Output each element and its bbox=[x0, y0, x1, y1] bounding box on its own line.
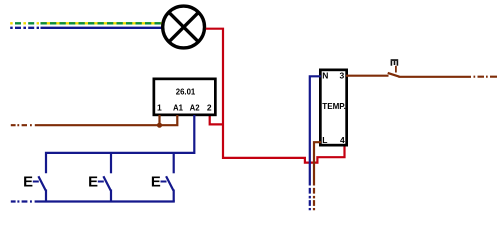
svg-text:3: 3 bbox=[340, 71, 345, 81]
svg-text:4: 4 bbox=[340, 135, 345, 145]
svg-text:2: 2 bbox=[207, 103, 212, 113]
svg-text:E: E bbox=[151, 175, 161, 191]
svg-text:N: N bbox=[322, 71, 328, 81]
svg-text:L: L bbox=[322, 135, 327, 145]
svg-text:1: 1 bbox=[157, 103, 162, 113]
svg-text:E: E bbox=[23, 175, 33, 191]
svg-text:E: E bbox=[88, 175, 98, 191]
svg-text:TEMP.: TEMP. bbox=[322, 101, 346, 111]
svg-text:26.01: 26.01 bbox=[176, 87, 196, 97]
svg-text:A2: A2 bbox=[190, 103, 200, 113]
svg-text:A1: A1 bbox=[173, 103, 183, 113]
